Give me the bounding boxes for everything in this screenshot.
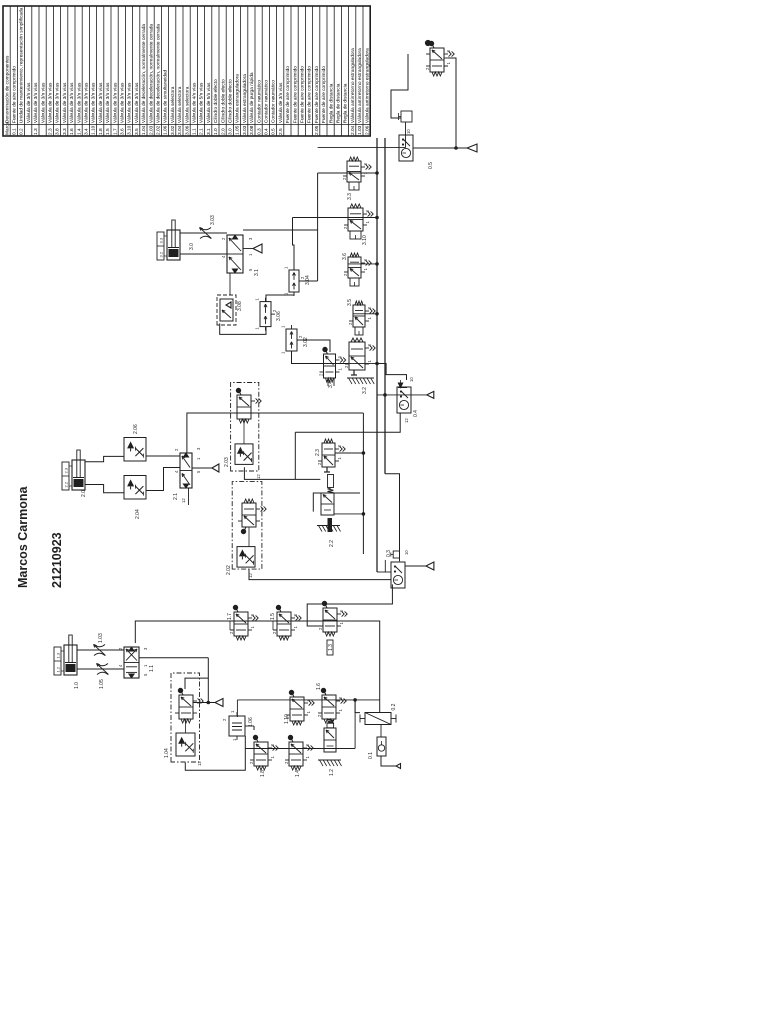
svg-text:Válvula de 3/n vías: Válvula de 3/n vías [62,82,68,123]
svg-text:3.1: 3.1 [206,128,212,135]
svg-text:Válvula de 3/n vías: Válvula de 3/n vías [134,82,140,123]
svg-text:1.8: 1.8 [260,770,266,777]
svg-text:1.1: 1.1 [192,128,198,135]
svg-text:3.6: 3.6 [120,128,126,135]
svg-text:3.06: 3.06 [184,125,190,135]
svg-text:Válvula de 3/n vías: Válvula de 3/n vías [33,82,39,123]
svg-text:2.06: 2.06 [133,424,139,434]
svg-text:21210923: 21210923 [50,532,64,588]
svg-text:Válvula de 3/n vías: Válvula de 3/n vías [76,82,82,123]
svg-text:Válvula selectora: Válvula selectora [177,86,183,123]
svg-text:Válvula de 3/n vías: Válvula de 3/n vías [105,82,111,123]
svg-text:2.04: 2.04 [350,125,356,135]
svg-text:3.2: 3.2 [362,387,368,394]
svg-text:Válvula selectora: Válvula selectora [170,86,176,123]
svg-text:1.05: 1.05 [235,125,241,135]
svg-text:Unidad de mantenimiento, repre: Unidad de mantenimiento, representación … [19,7,25,123]
svg-text:1.10: 1.10 [284,714,290,724]
svg-text:2.1: 2.1 [173,493,179,500]
svg-text:3.2: 3.2 [159,251,164,257]
svg-text:Válvula de 3/n vías: Válvula de 3/n vías [84,82,90,123]
svg-text:10: 10 [406,129,411,134]
svg-text:Válvula de 3/n vías: Válvula de 3/n vías [55,82,61,123]
svg-text:1.4: 1.4 [295,770,301,777]
svg-text:2.0: 2.0 [81,490,87,497]
svg-text:1.04: 1.04 [164,748,170,758]
svg-text:Denominación de componentes: Denominación de componentes [4,55,10,123]
svg-text:Válvula de deceleración, norma: Válvula de deceleración, normalmente cer… [156,24,162,124]
svg-text:Regla de distancia: Regla de distancia [336,83,342,123]
svg-text:0.1: 0.1 [12,128,18,135]
svg-text:1.0: 1.0 [74,682,80,689]
svg-text:1.06: 1.06 [163,125,169,135]
svg-text:10: 10 [409,377,414,382]
svg-text:2.1: 2.1 [199,128,205,135]
svg-text:0.2: 0.2 [391,703,397,710]
svg-text:1.10: 1.10 [91,125,97,135]
svg-text:Válvula de purga rápida: Válvula de purga rápida [249,72,255,123]
svg-text:3.10: 3.10 [127,125,133,135]
svg-text:Cilindro doble efecto: Cilindro doble efecto [220,79,226,123]
svg-text:3.04: 3.04 [177,125,183,135]
svg-text:2.2: 2.2 [329,540,335,547]
svg-text:0.2: 0.2 [19,128,25,135]
svg-text:2.3: 2.3 [315,449,321,456]
svg-text:0.1: 0.1 [368,752,374,759]
svg-text:3.3: 3.3 [159,237,164,243]
svg-text:Marcos Carmona: Marcos Carmona [16,486,30,588]
svg-text:1.5: 1.5 [270,613,276,620]
svg-text:1.4: 1.4 [76,128,82,135]
svg-text:2.04: 2.04 [135,509,141,519]
svg-text:Fuente de aire comprimido: Fuente de aire comprimido [292,66,298,123]
svg-text:2.0: 2.0 [220,128,226,135]
svg-text:Válvula antirretorno estrangul: Válvula antirretorno estranguladora [357,48,363,123]
svg-text:12: 12 [181,498,186,503]
svg-text:3.4: 3.4 [328,381,334,388]
svg-text:Válvula de deceleración, norma: Válvula de deceleración, normalmente cer… [141,24,147,124]
svg-text:3.10: 3.10 [362,235,368,245]
svg-text:Cilindro doble efecto: Cilindro doble efecto [213,79,219,123]
svg-text:1.6: 1.6 [69,128,75,135]
svg-text:Contador neumático: Contador neumático [264,80,270,124]
svg-text:0.5: 0.5 [271,128,277,135]
svg-text:Válvula de 3/n vías: Válvula de 3/n vías [48,82,54,123]
svg-text:Fuente de aire comprimido: Fuente de aire comprimido [285,66,291,123]
svg-text:Válvula de 5/n vías: Válvula de 5/n vías [206,82,212,123]
svg-text:Fuente de aire comprimido: Fuente de aire comprimido [307,66,313,123]
svg-text:2.03: 2.03 [148,125,154,135]
svg-text:1.3: 1.3 [33,128,39,135]
svg-text:Válvula de 3/n vías: Válvula de 3/n vías [26,82,32,123]
svg-text:Fuente de aire comprimido: Fuente de aire comprimido [321,66,327,123]
svg-text:3.02: 3.02 [170,125,176,135]
svg-text:3.3: 3.3 [347,193,353,200]
svg-text:2.5: 2.5 [278,128,284,135]
svg-text:Regla de distancia: Regla de distancia [328,83,334,123]
svg-text:Válvula de 3/n vías: Válvula de 3/n vías [112,82,118,123]
svg-text:Contador neumático: Contador neumático [256,80,262,124]
svg-text:1.04: 1.04 [141,125,147,135]
svg-text:0.4: 0.4 [264,128,270,135]
svg-text:3.06: 3.06 [276,311,282,321]
svg-text:Válvula de 3/n vías: Válvula de 3/n vías [69,82,75,123]
svg-text:Válvula antirretorno estrangul: Válvula antirretorno estranguladora [350,48,356,123]
svg-text:2.03: 2.03 [224,457,230,467]
svg-text:12: 12 [197,761,202,766]
svg-text:0.3: 0.3 [256,128,262,135]
svg-text:3.04: 3.04 [305,275,311,285]
svg-text:2.3: 2.3 [48,128,54,135]
svg-text:3.0: 3.0 [189,243,195,250]
svg-text:Válvula de 3/n vías: Válvula de 3/n vías [98,82,104,123]
svg-text:3.02: 3.02 [303,337,309,347]
svg-text:3.1: 3.1 [254,269,260,276]
svg-text:0.5: 0.5 [428,162,434,169]
svg-text:3.3: 3.3 [62,128,68,135]
svg-text:1.03: 1.03 [357,125,363,135]
svg-text:Válvula de 4/n vías: Válvula de 4/n vías [192,82,198,123]
svg-text:3.5: 3.5 [134,128,140,135]
svg-text:3.08: 3.08 [249,125,255,135]
svg-text:Fuente de aire comprimido: Fuente de aire comprimido [300,66,306,123]
svg-text:Válvula de deceleración, norma: Válvula de deceleración, normalmente cer… [148,24,154,124]
svg-text:1.2: 1.2 [56,666,61,672]
svg-text:Válvula antirretorno estrangul: Válvula antirretorno estranguladora [364,48,370,123]
svg-text:1.03: 1.03 [98,633,104,643]
svg-text:Regla de distancia: Regla de distancia [343,83,349,123]
svg-text:2.06: 2.06 [364,125,370,135]
svg-text:3.03: 3.03 [242,125,248,135]
svg-text:Válvula de 3/n vías: Válvula de 3/n vías [120,82,126,123]
svg-text:3.08: 3.08 [237,301,243,311]
svg-text:Fuente de aire comprimido: Fuente de aire comprimido [12,66,18,123]
svg-text:3.4: 3.4 [84,128,90,135]
svg-text:Válvula de 3/n vías: Válvula de 3/n vías [127,82,133,123]
svg-text:Válvula estranguladora: Válvula estranguladora [242,74,248,123]
svg-text:1.8: 1.8 [98,128,104,135]
svg-text:Válvula estranguladora: Válvula estranguladora [235,74,241,123]
svg-text:Válvula de 5/n vías: Válvula de 5/n vías [199,82,205,123]
svg-text:2.02: 2.02 [156,125,162,135]
svg-text:3.03: 3.03 [210,215,216,225]
svg-text:12: 12 [404,418,409,423]
svg-text:10: 10 [404,550,409,555]
svg-text:Cilindro doble efecto: Cilindro doble efecto [228,79,234,123]
svg-text:Fuente de aire comprimido: Fuente de aire comprimido [314,66,320,123]
svg-text:1.1: 1.1 [149,665,155,672]
svg-text:3.6: 3.6 [342,253,348,260]
svg-text:0.4: 0.4 [413,410,419,417]
svg-text:2.3: 2.3 [64,467,69,473]
svg-text:2.2: 2.2 [64,481,69,487]
svg-text:3.0: 3.0 [228,128,234,135]
svg-text:1.7: 1.7 [227,613,233,620]
svg-text:2.05: 2.05 [314,125,320,135]
svg-text:1.05: 1.05 [99,679,105,689]
svg-text:Válvula de 3/n vías: Válvula de 3/n vías [278,82,284,123]
svg-text:Contador neumático: Contador neumático [271,80,277,124]
svg-text:12: 12 [256,474,261,479]
svg-text:1.7: 1.7 [112,128,118,135]
svg-text:1.5: 1.5 [105,128,111,135]
svg-text:2.02: 2.02 [226,565,232,575]
svg-text:3.8: 3.8 [55,128,61,135]
svg-text:3.5: 3.5 [347,299,353,306]
svg-text:1.6: 1.6 [316,683,322,690]
svg-text:Válvula de 3/n vías: Válvula de 3/n vías [91,82,97,123]
svg-text:Válvula selectora: Válvula selectora [184,86,190,123]
svg-text:1.3: 1.3 [56,652,61,658]
svg-text:Válvula de simultaneidad: Válvula de simultaneidad [163,69,169,123]
svg-text:1.2: 1.2 [329,769,335,776]
svg-text:1.06: 1.06 [248,717,254,727]
svg-text:Válvula de 3/n vías: Válvula de 3/n vías [40,82,46,123]
svg-text:1.0: 1.0 [213,128,219,135]
